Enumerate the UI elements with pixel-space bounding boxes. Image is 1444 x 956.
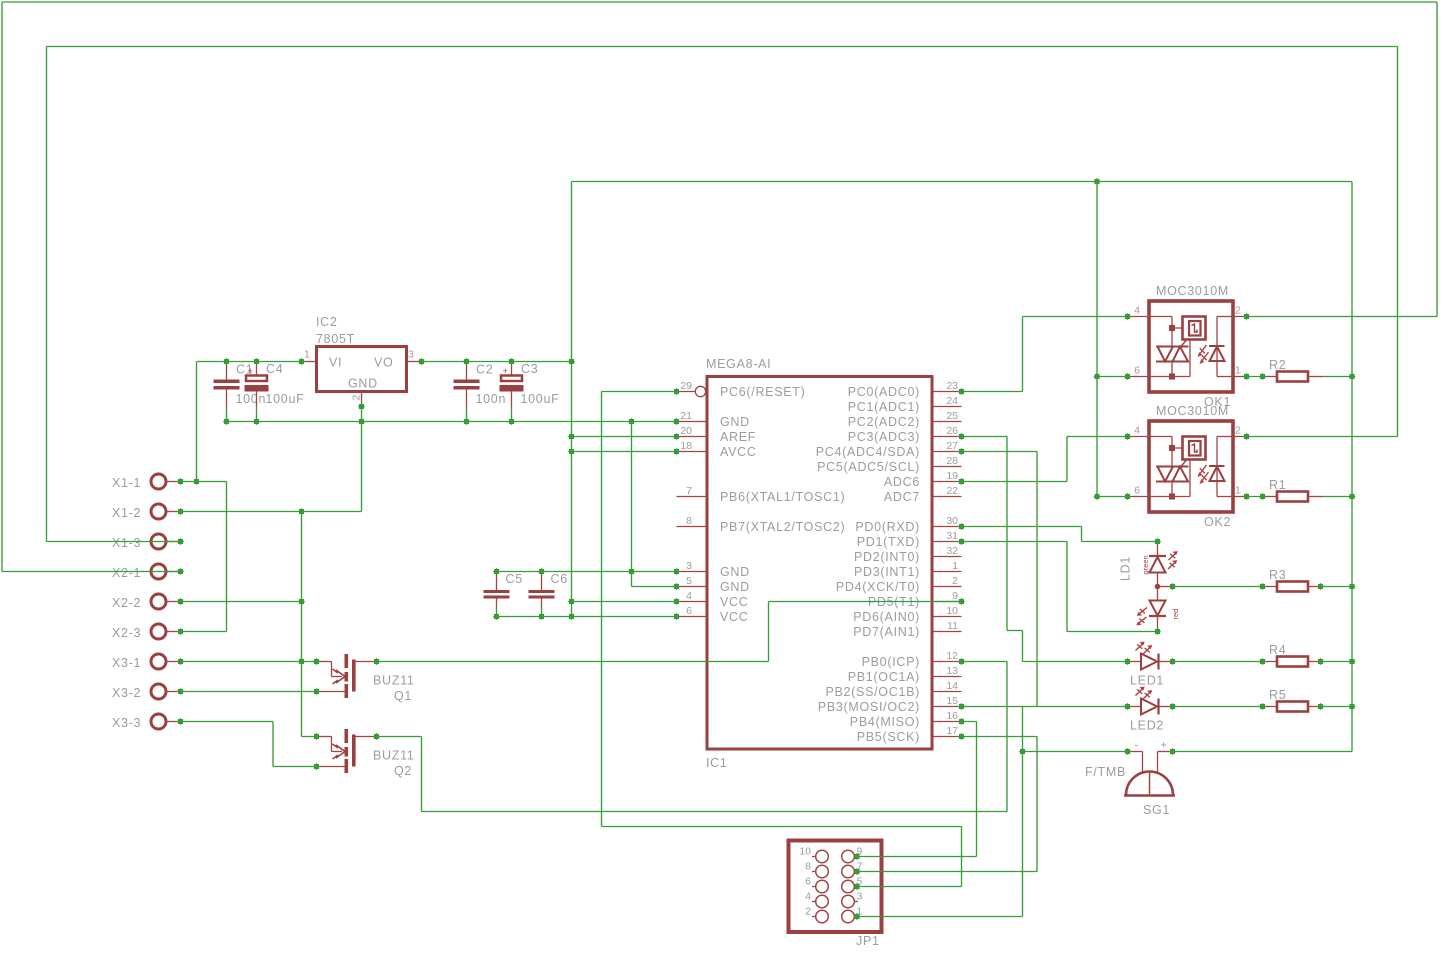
net PC0: pin 23 to OK1 pin 4	[962, 317, 1128, 392]
header JP1	[789, 841, 882, 949]
net N$2: X1-3 to OK2 pin 2 inner loop	[47, 47, 1398, 542]
net N$1: X2-1 to OK1 pin 2 outer loop	[2, 2, 1437, 572]
svg-text:X3-2: X3-2	[112, 686, 141, 700]
net N$3: top rail to OK pins 6 and R1 R2	[572, 182, 1353, 752]
svg-text:15: 15	[946, 695, 958, 707]
capacitor C3 100uF	[500, 362, 560, 422]
svg-text:4: 4	[686, 590, 692, 602]
svg-text:17: 17	[946, 725, 958, 737]
svg-text:PD3(INT1): PD3(INT1)	[854, 565, 920, 579]
capacitor C2 100n	[454, 362, 507, 422]
svg-text:1: 1	[1235, 365, 1241, 377]
svg-text:23: 23	[946, 380, 958, 392]
svg-text:6: 6	[1134, 365, 1140, 377]
svg-text:GND: GND	[720, 565, 750, 579]
svg-text:BUZ11: BUZ11	[373, 749, 414, 763]
svg-text:100uF: 100uF	[521, 392, 560, 406]
connector pad X1-3	[112, 534, 181, 550]
svg-text:X3-3: X3-3	[112, 716, 141, 730]
svg-text:VCC: VCC	[720, 595, 749, 609]
svg-text:1: 1	[304, 349, 310, 361]
svg-text:C6: C6	[551, 572, 568, 586]
svg-text:14: 14	[946, 680, 958, 692]
svg-text:3: 3	[686, 560, 692, 572]
connector pad X3-1	[112, 654, 181, 670]
connector pad X2-3	[112, 624, 181, 640]
LED LED2	[1128, 687, 1173, 733]
connector pad X1-1	[112, 474, 181, 490]
svg-text:PC4(ADC4/SDA): PC4(ADC4/SDA)	[816, 445, 920, 459]
svg-text:2: 2	[351, 395, 363, 401]
svg-text:1: 1	[952, 560, 958, 572]
svg-text:AREF: AREF	[720, 430, 756, 444]
svg-text:GND: GND	[720, 415, 750, 429]
svg-text:2: 2	[1235, 305, 1241, 317]
net PC4: pin 27 to LED2	[962, 452, 1038, 707]
svg-text:22: 22	[946, 485, 958, 497]
net N$4: OK1 pin 1 to R2	[1247, 377, 1353, 497]
svg-text:PB4(MISO): PB4(MISO)	[850, 715, 920, 729]
svg-text:30: 30	[946, 515, 958, 527]
net RESET: pin 29 to JP1 pin 5	[602, 392, 962, 887]
svg-text:LED2: LED2	[1130, 719, 1164, 733]
svg-text:20: 20	[680, 425, 692, 437]
svg-text:MEGA8-AI: MEGA8-AI	[706, 357, 771, 371]
svg-text:R1: R1	[1269, 478, 1286, 492]
optocoupler OK2 MOC3010M	[1128, 404, 1247, 529]
connector pad X3-2	[112, 684, 181, 700]
resistor R3	[1263, 568, 1323, 592]
svg-text:32: 32	[946, 545, 958, 557]
svg-text:VO: VO	[374, 356, 393, 370]
svg-text:24: 24	[946, 395, 958, 407]
svg-text:green: green	[1141, 555, 1150, 574]
net PB3: pin 15 to SG1- and JP1 pin 1	[857, 707, 1128, 917]
net PB4: pin 16 to JP1 pin 9	[857, 722, 977, 857]
svg-text:31: 31	[946, 530, 958, 542]
svg-text:BUZ11: BUZ11	[373, 674, 414, 688]
svg-text:100n: 100n	[236, 392, 267, 406]
svg-text:4: 4	[1134, 425, 1140, 437]
svg-text:C3: C3	[521, 362, 538, 376]
net +5V AREF AVCC VCC	[497, 182, 677, 617]
svg-text:JP1: JP1	[856, 934, 880, 948]
svg-text:ADC7: ADC7	[884, 490, 920, 504]
svg-text:1: 1	[1235, 485, 1241, 497]
svg-text:4: 4	[1134, 305, 1140, 317]
svg-text:3: 3	[408, 349, 414, 361]
svg-text:Q2: Q2	[394, 764, 412, 778]
net PB5: pin 17 to JP1 pin 7	[857, 737, 1037, 872]
capacitor C5	[484, 572, 523, 617]
net PB0: pin 12 to Q2 drain	[377, 662, 1008, 812]
svg-text:12: 12	[946, 650, 958, 662]
svg-text:29: 29	[680, 380, 692, 392]
svg-text:Q1: Q1	[394, 689, 412, 703]
svg-text:VCC: VCC	[720, 610, 749, 624]
svg-text:100n: 100n	[476, 392, 507, 406]
svg-text:8: 8	[805, 861, 811, 873]
svg-text:C4: C4	[266, 362, 283, 376]
svg-text:C2: C2	[476, 363, 493, 377]
resistor R1	[1263, 478, 1323, 502]
svg-text:11: 11	[947, 620, 958, 632]
svg-text:C5: C5	[506, 572, 523, 586]
svg-text:PD7(AIN1): PD7(AIN1)	[853, 625, 920, 639]
svg-text:X1-2: X1-2	[112, 506, 141, 520]
svg-text:100uF: 100uF	[266, 392, 305, 406]
capacitor C4 100uF	[245, 362, 305, 422]
voltage regulator IC2 7805T	[302, 315, 422, 407]
svg-text:19: 19	[946, 470, 958, 482]
net PC3: pin 26 to LED1	[962, 437, 1128, 662]
resistor R2	[1263, 358, 1323, 382]
svg-text:PC5(ADC5/SCL): PC5(ADC5/SCL)	[817, 460, 920, 474]
net GND rail	[227, 422, 677, 587]
resistor R5	[1263, 688, 1323, 712]
svg-text:LED1: LED1	[1130, 674, 1164, 688]
svg-text:IC2: IC2	[316, 315, 338, 329]
svg-text:3: 3	[857, 891, 863, 903]
svg-text:VI: VI	[329, 356, 342, 370]
svg-text:6: 6	[805, 876, 811, 888]
svg-text:LD1: LD1	[1119, 556, 1133, 581]
svg-text:4: 4	[805, 891, 811, 903]
svg-text:R3: R3	[1269, 568, 1286, 582]
svg-text:PD6(AIN0): PD6(AIN0)	[853, 610, 920, 624]
svg-text:SG1: SG1	[1143, 803, 1170, 817]
net wires LED to resistors	[1173, 587, 1353, 707]
svg-text:26: 26	[946, 425, 958, 437]
svg-text:+: +	[1161, 740, 1167, 752]
svg-text:28: 28	[946, 455, 958, 467]
svg-text:X3-1: X3-1	[112, 656, 141, 670]
svg-text:PB0(ICP): PB0(ICP)	[862, 655, 920, 669]
connector pad X1-2	[112, 504, 181, 520]
svg-text:IC1: IC1	[706, 756, 728, 770]
svg-text:PD2(INT0): PD2(INT0)	[854, 550, 920, 564]
svg-text:+: +	[503, 366, 509, 377]
svg-text:R4: R4	[1269, 643, 1286, 657]
capacitor C1 100n	[214, 362, 267, 422]
svg-text:PD4(XCK/T0): PD4(XCK/T0)	[836, 580, 920, 594]
net N$5: SG1 wires	[1023, 751, 1353, 753]
svg-text:R5: R5	[1269, 688, 1286, 702]
svg-text:2: 2	[805, 906, 811, 918]
svg-text:6: 6	[1134, 485, 1140, 497]
svg-text:13: 13	[946, 665, 958, 677]
svg-text:PB3(MOSI/OC2): PB3(MOSI/OC2)	[818, 700, 920, 714]
svg-text:6: 6	[686, 605, 692, 617]
svg-text:MOC3010M: MOC3010M	[1156, 404, 1229, 418]
svg-text:27: 27	[946, 440, 958, 452]
svg-text:AVCC: AVCC	[720, 445, 757, 459]
svg-text:GND: GND	[720, 580, 750, 594]
svg-text:PB5(SCK): PB5(SCK)	[857, 730, 920, 744]
net PD0 PD1 to LD1	[962, 527, 1158, 632]
svg-text:10: 10	[946, 605, 958, 617]
svg-text:OK2: OK2	[1204, 515, 1231, 529]
net ADC6: pin 19 to OK2 pin 4	[962, 437, 1128, 482]
connector pad X2-2	[112, 594, 181, 610]
svg-text:ADC6: ADC6	[884, 475, 920, 489]
optocoupler OK1 MOC3010M	[1128, 284, 1247, 409]
connector pad X2-1	[112, 564, 181, 580]
svg-text:MOC3010M: MOC3010M	[1156, 284, 1229, 298]
svg-text:PD0(RXD): PD0(RXD)	[855, 520, 920, 534]
svg-text:2: 2	[1235, 425, 1241, 437]
svg-text:7805T: 7805T	[316, 332, 355, 346]
svg-text:PB6(XTAL1/TOSC1): PB6(XTAL1/TOSC1)	[720, 490, 845, 504]
microcontroller IC1 MEGA8-AI	[677, 357, 962, 770]
transistor Q2 BUZ11	[317, 729, 415, 778]
svg-text:PB2(SS/OC1B): PB2(SS/OC1B)	[825, 685, 920, 699]
svg-text:R2: R2	[1269, 358, 1286, 372]
svg-text:red: red	[1171, 609, 1180, 620]
svg-text:F/TMB: F/TMB	[1085, 765, 1126, 779]
capacitor C6	[529, 572, 568, 617]
resistor R4	[1263, 643, 1323, 667]
net X connector wires	[181, 362, 362, 767]
svg-text:X1-1: X1-1	[112, 476, 141, 490]
buzzer SG1 F/TMB	[1085, 740, 1175, 818]
svg-text:GND: GND	[348, 377, 378, 391]
svg-text:-: -	[1135, 740, 1139, 752]
svg-text:X1-3: X1-3	[112, 536, 141, 550]
svg-text:PC0(ADC0): PC0(ADC0)	[848, 385, 920, 399]
svg-text:+: +	[248, 366, 254, 377]
svg-text:PD1(TXD): PD1(TXD)	[857, 535, 920, 549]
svg-text:16: 16	[946, 710, 958, 722]
svg-text:X2-3: X2-3	[112, 626, 141, 640]
svg-text:PB1(OC1A): PB1(OC1A)	[848, 670, 920, 684]
svg-text:5: 5	[686, 575, 692, 587]
LED LED1	[1128, 642, 1173, 688]
dual LED LD1	[1119, 542, 1181, 632]
svg-text:PC6(/RESET): PC6(/RESET)	[720, 385, 806, 399]
svg-text:21: 21	[680, 410, 692, 422]
svg-text:X2-2: X2-2	[112, 596, 141, 610]
svg-text:2: 2	[952, 575, 958, 587]
net VO and VI rails	[197, 362, 572, 422]
svg-text:8: 8	[686, 515, 692, 527]
svg-text:18: 18	[680, 440, 692, 452]
transistor Q1 BUZ11	[317, 654, 415, 703]
svg-text:10: 10	[799, 846, 811, 858]
svg-text:PC1(ADC1): PC1(ADC1)	[848, 400, 920, 414]
svg-text:X2-1: X2-1	[112, 566, 141, 580]
svg-text:7: 7	[686, 485, 692, 497]
svg-text:25: 25	[946, 410, 958, 422]
svg-text:PC2(ADC2): PC2(ADC2)	[848, 415, 920, 429]
svg-text:PC3(ADC3): PC3(ADC3)	[848, 430, 920, 444]
junction and pin dots	[177, 178, 1356, 920]
connector pad X3-3	[112, 714, 181, 730]
net PD5: pin 9 to Q1 drain	[377, 602, 962, 662]
svg-text:9: 9	[952, 590, 958, 602]
svg-text:PB7(XTAL2/TOSC2): PB7(XTAL2/TOSC2)	[720, 520, 845, 534]
